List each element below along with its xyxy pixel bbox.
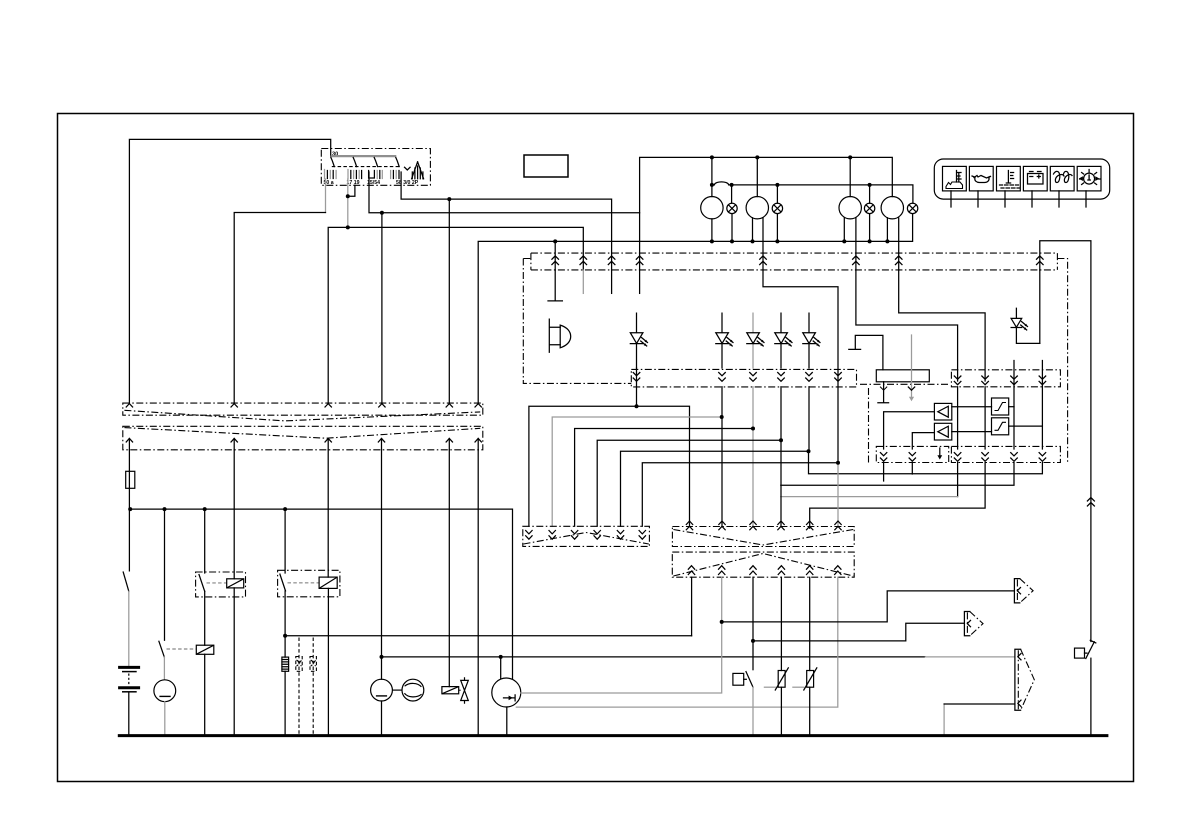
injector solenoid xyxy=(442,687,459,694)
upper half pin chevrons xyxy=(126,404,481,407)
wire: terminal 15/54 to connector pin 4 and run to headlamp rail xyxy=(369,172,382,403)
injection relay box xyxy=(278,570,340,597)
wire: lamp supply rail top xyxy=(640,157,893,270)
injection relay link (dashed grey) xyxy=(288,582,320,584)
wire: 17/19 jog to connector pin 3 and run to cluster pin 2 xyxy=(328,227,348,403)
fuel gauge pin to ground bar xyxy=(878,382,889,403)
wire: pin 6 (lamp 4 filament) to gauge board xyxy=(899,270,985,381)
starter relay link (dashed grey) xyxy=(207,582,227,584)
LED indicator 6 (right) xyxy=(1011,308,1040,343)
ignition key symbol xyxy=(405,162,424,179)
emergency switch xyxy=(1075,640,1096,735)
wire: connector pin 4 to fuel pump motor and ground xyxy=(381,450,383,736)
LED indicator row 2 xyxy=(716,313,733,368)
ignition switch bus bar 30 xyxy=(331,155,397,157)
staircase row 3 xyxy=(575,429,753,527)
wire: pin 3 to side-stand switch and branch to single connector 2 xyxy=(752,577,754,670)
staircase row 2 (grey branch) xyxy=(552,417,722,526)
wire: bus to starter contact xyxy=(164,509,166,640)
pilot lamp 1 xyxy=(727,203,737,213)
wire: big lamp 2 top xyxy=(756,157,758,196)
wire: buffer 2 to schmitt 2 xyxy=(952,431,992,433)
wire: contact to starter motor (grey) xyxy=(163,657,165,679)
air temperature sensor xyxy=(793,577,817,735)
spark plug lead 1 xyxy=(296,638,302,736)
wire: connector pin 6 to ground xyxy=(477,450,479,736)
wire: connector pin 3 through injection relay coil to ground xyxy=(327,450,329,736)
lower half pin arrows xyxy=(126,438,481,449)
wire: lamp bottoms to distribution line xyxy=(712,218,888,242)
wire: battery feed 30 from frame corner to ignition switch xyxy=(129,139,330,403)
staircase row 6 xyxy=(642,463,838,527)
ignition switch comb terminal 50a xyxy=(325,170,337,180)
wire: schmitt 2 output xyxy=(1009,425,1043,427)
master switch xyxy=(123,572,129,591)
engine connector upper half xyxy=(672,527,854,547)
wire: starter motor to ground (grey) xyxy=(164,702,166,736)
wire: gauge board outputs to lower runs xyxy=(957,463,959,497)
ignition coil xyxy=(282,657,289,736)
ground bus xyxy=(118,734,1109,737)
wire: buffer 1 input xyxy=(884,412,935,481)
headlamp bulb 1 xyxy=(701,197,723,219)
staircase row 5 xyxy=(621,387,810,527)
injector valve xyxy=(459,677,469,704)
fuel gauge unit box xyxy=(876,370,929,382)
starter contact link (dashed grey) xyxy=(167,648,197,650)
pilot lamp 3 xyxy=(864,203,874,213)
pilot lamp 2 xyxy=(772,203,782,213)
svg-text:17 19: 17 19 xyxy=(347,180,360,186)
staircase row 4 xyxy=(597,387,781,527)
buffer amplifier 1 xyxy=(934,403,951,420)
engine connector upper pin chevrons xyxy=(686,521,841,530)
wire: lamp 3 second filament to cluster pin xyxy=(855,218,857,270)
headlamp bulb 2 xyxy=(746,197,768,219)
wire: engine connector pin 2 upper xyxy=(721,577,723,622)
LED indicator row 5 xyxy=(803,313,820,368)
side-stand switch xyxy=(733,672,753,736)
wire: pin 7 jog to LED 6 feed xyxy=(1039,270,1041,343)
gauge board strip pin chevrons xyxy=(880,376,1045,461)
LED indicator row 4 xyxy=(775,313,792,368)
warning icon cell 2: oil pressure xyxy=(969,166,993,191)
cluster bottom connector strip xyxy=(631,369,856,387)
wire: distribution line to cluster pin 1 xyxy=(554,241,556,270)
wire: big lamp 1 top xyxy=(711,157,713,196)
diagnostic connector strip xyxy=(523,526,650,546)
cluster internal ground bar (gauge) xyxy=(849,335,883,369)
wire: big lamp 3 top xyxy=(849,157,851,196)
wire: engine connector pin 1 to HT junction xyxy=(691,577,693,636)
fuel pump motor xyxy=(371,679,393,701)
gauge board connector strips xyxy=(876,370,1060,463)
buzzer xyxy=(549,319,570,352)
wire: pin 5 (lamp 3 filament) to gauge board xyxy=(856,270,958,381)
starter solenoid coil xyxy=(196,645,214,654)
injection relay coil xyxy=(319,577,337,588)
ignition terminal labels xyxy=(324,180,419,186)
wire: pilot lamp rail with jumper hump xyxy=(712,185,913,203)
cluster internal ground bar pin 1 xyxy=(548,270,562,301)
ignition switch comb terminal 58 xyxy=(391,171,399,179)
wire marker chevrons on right-hand run xyxy=(1087,498,1094,507)
fuel pump assembly circle with diode xyxy=(492,657,521,736)
schmitt trigger 1 xyxy=(992,398,1009,415)
svg-text:58 3/0 2P: 58 3/0 2P xyxy=(396,180,419,186)
coolant temperature sensor xyxy=(764,577,788,735)
cluster internal stub pin 4 xyxy=(639,270,641,293)
starter relay contact xyxy=(199,575,205,592)
single connector 2 xyxy=(964,612,983,636)
starter relay box xyxy=(196,572,246,597)
pilot lamp 4 xyxy=(907,203,917,213)
wire: gauge board vertical feeds xyxy=(958,361,1043,450)
instrument warning-light module xyxy=(934,159,1109,199)
wire: feed to cluster pin 8 and long right-hand run xyxy=(1040,241,1091,642)
wire: lamp 2 second filament to cluster pin xyxy=(762,218,764,270)
wire: terminal 58 run to cluster pin 3 and connector pin 5 xyxy=(401,172,611,270)
wire: buffer 2 input xyxy=(912,433,934,474)
warning icon cell 1: fuel level xyxy=(943,166,967,191)
main supply bus xyxy=(130,509,512,679)
wire: terminal 50a down and jog left to connector pin 2 xyxy=(325,179,327,213)
main harness connector lower half xyxy=(123,426,483,450)
starter relay coil xyxy=(227,579,244,588)
cluster internal stub pin 2 xyxy=(582,270,584,293)
wire: pin 2 branch to single connector 1 xyxy=(722,591,1015,622)
spark plug lead 2 xyxy=(310,638,316,736)
wire: coil HT junction line xyxy=(285,635,691,637)
wire: bus to starter relay contact and solenoid coil to ground xyxy=(204,509,206,735)
fuel gauge sender arrow (grey) xyxy=(908,335,914,401)
wire: cluster pin to row 6 vertical xyxy=(763,270,838,463)
ignition switch mechanical link (dashed) xyxy=(332,166,399,168)
main harness connector upper half xyxy=(123,403,483,421)
starter contact xyxy=(159,641,164,657)
fuel pump impeller xyxy=(392,679,423,701)
wire: terminal 17/19 down (grey) with second pin hook xyxy=(347,179,349,227)
ignition switch comb terminal 17/19 xyxy=(348,170,362,180)
warning icon cell 3: coolant temperature xyxy=(997,166,1021,191)
unlabeled legend rectangle xyxy=(524,155,568,177)
border frame xyxy=(58,114,1134,782)
warning icon cell 5: glow coil xyxy=(1050,166,1074,191)
warning module stub wires xyxy=(951,191,1086,207)
wire: small lamp tops xyxy=(732,185,870,203)
ignition switch contact blades xyxy=(331,158,399,167)
warning icon cell 6: engine temperature xyxy=(1077,166,1101,191)
fuel pump supply line xyxy=(382,656,926,658)
wire: buffer 1 to schmitt 1 xyxy=(952,406,992,408)
ignition switch comb terminal 15/54 xyxy=(369,171,383,179)
headlamp bulb 4 xyxy=(881,197,903,219)
engine connector lower half xyxy=(672,552,854,577)
headlamp bulb 3 xyxy=(839,197,861,219)
single connector 1 xyxy=(1014,579,1033,603)
wire: pump feed (grey) from engine connector xyxy=(521,622,722,693)
diagnostic connector pin arrows xyxy=(526,531,646,540)
wire: bus to injection relay and down to ignition coil xyxy=(284,509,286,657)
cluster internal stub pin 3 xyxy=(611,270,613,293)
wire: lamp distribution line to connector pin 6 xyxy=(478,214,912,404)
schmitt trigger 2 xyxy=(992,418,1009,435)
wire: connector pin 2 through starter relay coil to ground xyxy=(233,450,235,736)
gauge board small arrow pin xyxy=(937,448,942,460)
starter motor xyxy=(154,680,176,702)
wire: low fuel sender line (grey) xyxy=(516,577,838,707)
LED indicator 1 xyxy=(630,313,647,368)
cluster bottom strip pin chevrons xyxy=(633,373,841,382)
ignition switch box xyxy=(321,149,430,186)
instrument cluster outline xyxy=(523,253,1067,463)
staircase row 1: cluster LED1 to diagnostic and connector B pin 1 xyxy=(529,368,690,527)
wire: connector pin 5 to injector xyxy=(448,450,450,687)
wire: switch to battery (grey) xyxy=(128,591,130,665)
LED indicator row 3 xyxy=(747,313,764,368)
fuse xyxy=(126,450,135,571)
warning icon cell 4: battery charge xyxy=(1023,166,1047,191)
wire: schmitt 1 output xyxy=(1009,406,1014,408)
injection relay contact xyxy=(280,574,286,591)
multi connector (tall) xyxy=(1015,649,1034,710)
cluster connector top strip pin chevrons xyxy=(552,256,1043,265)
battery xyxy=(118,667,140,735)
wire: ground to multi connector lower pin xyxy=(943,704,945,736)
wire: lamp 4 second filament to cluster pin xyxy=(898,218,900,270)
engine connector lower pin chevrons xyxy=(688,566,841,575)
buffer amplifier 2 xyxy=(934,423,951,440)
